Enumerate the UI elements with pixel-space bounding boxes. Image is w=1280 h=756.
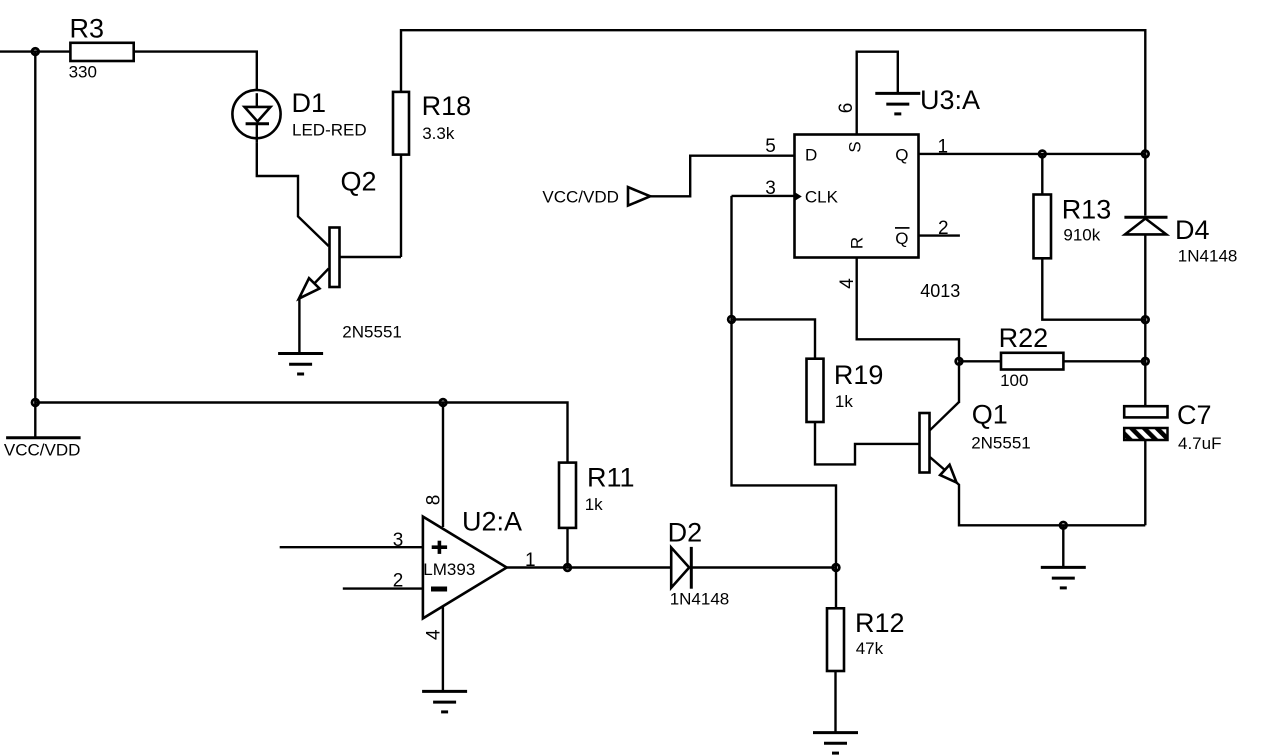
svg-text:R3: R3 (70, 13, 105, 43)
wire (919, 234, 960, 236)
wire (732, 196, 837, 568)
wire (959, 360, 1001, 362)
node junction rail R22 (1142, 358, 1149, 365)
wire (134, 52, 257, 94)
wire (0, 50, 70, 52)
resistor R22 (999, 323, 1064, 390)
wire (957, 483, 1146, 526)
wire (280, 546, 423, 548)
wire (1041, 154, 1043, 195)
svg-text:R: R (848, 237, 867, 249)
svg-text:1: 1 (938, 136, 949, 157)
svg-text:910k: 910k (1063, 226, 1100, 245)
node junction CLK branch (728, 316, 735, 323)
svg-text:6: 6 (836, 103, 857, 114)
node junction emitter ground (1060, 522, 1067, 529)
svg-text:4.7uF: 4.7uF (1178, 434, 1221, 453)
svg-text:47k: 47k (856, 639, 884, 658)
node VCC junction left bottom (32, 399, 39, 406)
svg-text:VCC/VDD: VCC/VDD (4, 440, 81, 459)
wire (1144, 154, 1146, 216)
wire (298, 298, 300, 353)
transistor Q2 (299, 167, 402, 342)
svg-text:LED-RED: LED-RED (292, 121, 367, 140)
wire (442, 403, 444, 528)
wire (34, 52, 36, 403)
wire (35, 403, 567, 463)
wire (343, 587, 423, 589)
svg-text:R13: R13 (1062, 195, 1112, 225)
wire (857, 52, 898, 135)
wire (732, 319, 816, 358)
svg-text:5: 5 (765, 136, 776, 157)
svg-text:1N4148: 1N4148 (670, 589, 730, 608)
transistor Q1 (920, 361, 1031, 482)
node junction rail R13 bottom (1142, 316, 1149, 323)
wire (1062, 525, 1064, 566)
ground Q1 C7 (1041, 567, 1086, 588)
wire (566, 528, 568, 568)
svg-text:Q1: Q1 (972, 400, 1008, 430)
svg-text:LM393: LM393 (423, 560, 475, 579)
diode D4 (1124, 215, 1237, 265)
wire (650, 156, 794, 197)
flip-flop U3:A box (795, 135, 961, 302)
svg-text:S: S (846, 141, 865, 152)
wire (507, 566, 672, 568)
svg-text:8: 8 (424, 495, 445, 506)
wire (691, 566, 836, 568)
svg-text:C7: C7 (1177, 400, 1212, 430)
svg-text:D2: D2 (668, 517, 703, 547)
wire (1144, 234, 1146, 406)
svg-text:R11: R11 (587, 463, 635, 493)
svg-text:VCC/VDD: VCC/VDD (542, 188, 619, 207)
svg-text:2N5551: 2N5551 (971, 433, 1031, 452)
wire (835, 568, 837, 609)
svg-text:100: 100 (1000, 371, 1028, 390)
wire (1063, 360, 1145, 362)
svg-text:1N4148: 1N4148 (1178, 247, 1238, 266)
diode D2 (668, 517, 730, 608)
svg-text:U2:A: U2:A (462, 507, 522, 537)
node junction rail pin1 (1142, 151, 1149, 158)
svg-text:4013: 4013 (920, 281, 960, 301)
svg-text:3: 3 (765, 178, 776, 199)
svg-text:3.3k: 3.3k (422, 124, 455, 143)
svg-text:R18: R18 (422, 91, 472, 121)
svg-text:D4: D4 (1175, 215, 1210, 245)
power terminal VCC/VDD left (4, 403, 81, 460)
wire (442, 607, 444, 691)
svg-text:U3:A: U3:A (920, 85, 980, 115)
node junction op-amp VCC (440, 399, 447, 406)
svg-text:D: D (805, 146, 817, 165)
ground Q2 (278, 354, 323, 375)
wire (834, 671, 836, 732)
svg-text:2: 2 (938, 218, 949, 239)
svg-text:Q: Q (895, 229, 908, 248)
ground U3:A (875, 85, 980, 115)
wire (257, 142, 329, 246)
node VCC junction left top (32, 48, 39, 55)
svg-text:1k: 1k (585, 495, 603, 514)
svg-text:D1: D1 (292, 88, 327, 118)
svg-text:Q2: Q2 (341, 167, 377, 197)
capacitor C7 (1124, 400, 1221, 453)
ground R12 (813, 733, 858, 754)
wire (919, 153, 1146, 155)
ground op-amp (422, 691, 467, 712)
power terminal VCC/VDD middle (542, 187, 650, 206)
wire (1144, 440, 1146, 525)
svg-text:R12: R12 (855, 608, 905, 638)
svg-text:330: 330 (69, 63, 97, 82)
resistor R13 (1034, 195, 1112, 259)
resistor R12 (827, 608, 905, 671)
svg-text:4: 4 (424, 629, 445, 640)
op-amp U2:A (423, 507, 522, 619)
svg-text:Q: Q (895, 146, 908, 165)
node junction pin1 R13 (1039, 151, 1046, 158)
resistor R19 (807, 359, 884, 422)
wire (400, 155, 402, 257)
node junction D2 output (833, 564, 840, 571)
resistor R3 (69, 13, 134, 81)
svg-text:2N5551: 2N5551 (342, 323, 402, 342)
resistor R18 (393, 91, 471, 154)
svg-text:R22: R22 (999, 323, 1049, 353)
wire (401, 30, 1145, 154)
svg-text:R19: R19 (834, 360, 884, 390)
wire (1042, 258, 1145, 319)
wire (732, 195, 795, 197)
wire (815, 422, 919, 464)
LED D1 (232, 88, 366, 142)
svg-text:1k: 1k (835, 392, 853, 411)
wire (857, 258, 959, 362)
node junction op output (564, 564, 571, 571)
node junction R pin R22 collector (956, 358, 963, 365)
svg-text:4: 4 (837, 278, 858, 289)
resistor R11 (559, 463, 635, 528)
svg-text:CLK: CLK (805, 188, 839, 207)
